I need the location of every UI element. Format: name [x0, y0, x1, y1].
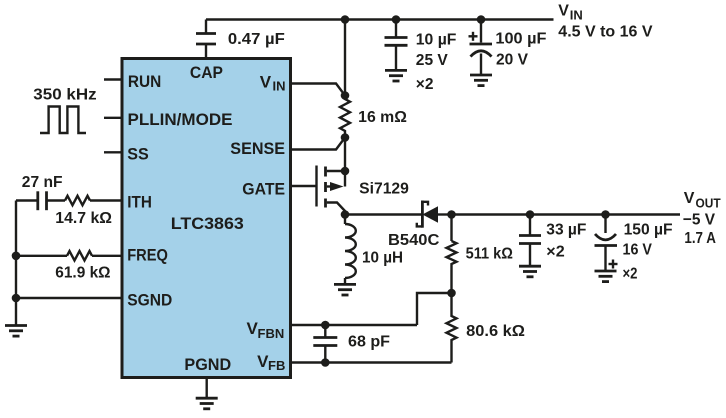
- plus sign 150uF: [609, 260, 618, 269]
- ground under 100uF: [470, 75, 492, 86]
- wire FREQ row left: [16, 255, 67, 257]
- pin stub RUN: [104, 78, 121, 80]
- wire SENSE pin to branch: [292, 138, 345, 150]
- resistor R1 511k: [447, 215, 457, 294]
- junction dot FREQ-left: [12, 252, 21, 261]
- junction dot rail-16mohm: [341, 15, 350, 24]
- resistor R sense 16 mohm: [340, 96, 350, 138]
- svg-text:FREQ: FREQ: [127, 246, 168, 265]
- svg-text:×2: ×2: [416, 76, 434, 93]
- svg-text:20 V: 20 V: [496, 52, 529, 69]
- svg-text:FB: FB: [268, 358, 285, 373]
- svg-text:33 µF: 33 µF: [546, 221, 586, 238]
- U1 pin label VFB: [257, 352, 285, 373]
- svg-text:PLLIN/MODE: PLLIN/MODE: [128, 110, 233, 129]
- capacitor C ITH 27 nF: [38, 191, 65, 210]
- wire VIN branch vertical: [344, 20, 346, 96]
- junction dot source-inductor-diode: [341, 210, 350, 219]
- svg-text:FBN: FBN: [258, 326, 285, 341]
- wire VFB row: [292, 361, 452, 363]
- svg-text:61.9 kΩ: 61.9 kΩ: [55, 264, 110, 281]
- svg-text:350 kHz: 350 kHz: [33, 87, 97, 104]
- svg-text:80.6 kΩ: 80.6 kΩ: [466, 323, 525, 340]
- ground PGND: [196, 398, 218, 409]
- svg-text:OUT: OUT: [696, 195, 721, 210]
- junction dot SENSE-16mohm bottom: [341, 133, 350, 142]
- label VIN net: [558, 2, 583, 22]
- svg-text:B540C: B540C: [388, 232, 439, 249]
- svg-text:14.7 kΩ: 14.7 kΩ: [55, 210, 112, 227]
- plus sign 100uF: [469, 32, 478, 41]
- wire source node to diode: [345, 213, 422, 215]
- svg-text:Si7129: Si7129: [359, 181, 409, 198]
- svg-text:GATE: GATE: [242, 179, 285, 198]
- label 33 uF x2: [546, 221, 586, 260]
- svg-text:4.5 V to 16 V: 4.5 V to 16 V: [558, 24, 653, 41]
- wire GATE pin: [292, 185, 317, 187]
- svg-text:16 V: 16 V: [623, 242, 653, 259]
- capacitor C1 0.47uF: [196, 20, 216, 58]
- ground under 10uF: [385, 70, 407, 81]
- junction dot VFBN-68pF: [321, 321, 330, 330]
- svg-text:511 kΩ: 511 kΩ: [466, 246, 513, 263]
- junction dot VFB-68pF: [321, 358, 330, 367]
- capacitor C2 10uF: [385, 20, 408, 71]
- svg-text:×2: ×2: [546, 243, 564, 260]
- diode D1 B540C schottky: [417, 201, 452, 228]
- svg-text:150 µF: 150 µF: [624, 222, 673, 239]
- svg-text:−5 V: −5 V: [683, 211, 716, 228]
- resistor R ITH 14.7 k: [65, 196, 90, 205]
- svg-text:SS: SS: [127, 145, 149, 164]
- U1 pin label VIN: [260, 72, 286, 93]
- label 100 uF 20 V: [495, 30, 546, 68]
- svg-text:0.47 µF: 0.47 µF: [228, 31, 285, 48]
- inductor L1 10uH: [345, 215, 356, 285]
- svg-text:SENSE: SENSE: [230, 139, 285, 158]
- pin stub PLLIN/MODE: [104, 117, 121, 119]
- 350 kHz clock annotation: [33, 87, 97, 133]
- wire 16mohm to MOSFET drain: [344, 138, 346, 172]
- svg-text:V: V: [260, 72, 272, 91]
- svg-text:CAP: CAP: [190, 63, 223, 82]
- svg-text:IN: IN: [273, 78, 286, 93]
- junction dot VOUT node: [447, 210, 456, 219]
- junction dot SGND-left: [12, 294, 21, 303]
- svg-text:RUN: RUN: [128, 72, 161, 91]
- svg-text:100 µF: 100 µF: [495, 30, 546, 47]
- svg-text:1.7 A: 1.7 A: [684, 230, 716, 247]
- U1 pin label VFBN: [247, 319, 285, 341]
- svg-text:10 µH: 10 µH: [362, 250, 403, 267]
- wire SGND row: [16, 297, 121, 299]
- junction dot MOSFET drain-body: [341, 167, 350, 176]
- label VOUT net: [684, 190, 721, 210]
- wire ITH row left: [16, 199, 37, 201]
- resistor R FREQ 61.9 k: [67, 251, 92, 260]
- capacitor C5 33uF: [519, 215, 541, 266]
- wire FREQ to IC: [92, 255, 121, 257]
- wire VFBN row: [292, 324, 417, 326]
- svg-text:V: V: [684, 190, 695, 207]
- ground under 33uF: [519, 266, 541, 277]
- junction dot VIN-16mohm top: [341, 91, 350, 100]
- capacitor C3 100uF polarized: [470, 20, 493, 75]
- svg-text:×2: ×2: [623, 266, 638, 283]
- wire top VIN rail: [206, 18, 554, 20]
- junction dot rail-10uF: [392, 15, 401, 24]
- svg-text:10 µF: 10 µF: [416, 31, 457, 48]
- resistor R2 80.6k: [447, 293, 457, 363]
- wire left vertical bus: [15, 201, 17, 326]
- svg-text:68 pF: 68 pF: [348, 334, 390, 351]
- wire divider to VFBN: [417, 293, 452, 325]
- junction dot 33uF: [526, 210, 535, 219]
- transistor Q1 Si7129 PMOS: [317, 166, 346, 215]
- IC U1 LTC3863 body: [122, 59, 291, 378]
- label 150 uF 16 V x2: [623, 222, 673, 283]
- svg-text:25 V: 25 V: [416, 52, 449, 69]
- pin stub SS: [104, 151, 121, 153]
- svg-text:16 mΩ: 16 mΩ: [358, 109, 407, 126]
- svg-text:27 nF: 27 nF: [22, 174, 63, 191]
- junction dot divider: [447, 289, 456, 298]
- ground under 150uF: [595, 271, 617, 282]
- capacitor C4 68pF: [313, 325, 337, 363]
- junction dot rail-100uF: [477, 15, 486, 24]
- svg-text:ITH: ITH: [127, 192, 152, 211]
- capacitor C6 150uF polarized: [595, 215, 618, 271]
- wire VOUT rail: [452, 213, 681, 215]
- label 10 uF 25 V x2: [416, 31, 457, 93]
- wire ITH to IC: [90, 199, 121, 201]
- svg-text:V: V: [558, 2, 569, 19]
- svg-text:IN: IN: [570, 8, 583, 23]
- ground under inductor: [334, 284, 356, 295]
- PGND stub: [205, 379, 207, 398]
- junction dot 150uF: [601, 210, 610, 219]
- svg-text:SGND: SGND: [127, 291, 172, 310]
- ground left: [5, 326, 27, 337]
- svg-text:LTC3863: LTC3863: [171, 214, 244, 233]
- svg-text:PGND: PGND: [184, 355, 231, 374]
- wire VIN pin to branch: [292, 84, 345, 96]
